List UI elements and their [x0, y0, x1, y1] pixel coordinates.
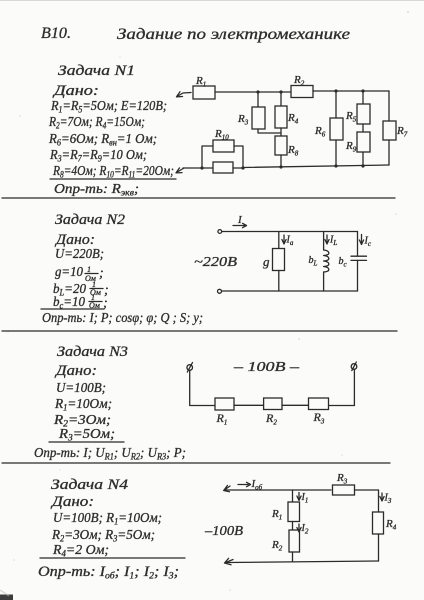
- svg-text:bc​=10: bc​=10: [53, 295, 85, 311]
- svg-text:U=100В;: U=100В;: [56, 381, 106, 396]
- svg-text:R6​=6Ом; Rвн​=1 Ом;: R6​=6Ом; Rвн​=1 Ом;: [48, 132, 157, 148]
- svg-text:Дано:: Дано:: [54, 363, 97, 379]
- svg-text:R2​=3Ом; R3​=5Ом;: R2​=3Ом; R3​=5Ом;: [51, 528, 155, 544]
- svg-text:~220В: ~220В: [194, 255, 238, 270]
- svg-text:Дано:: Дано:: [52, 83, 99, 99]
- svg-text:R3​=5Ом;: R3​=5Ом;: [58, 427, 115, 443]
- svg-text:Задача N4: Задача N4: [51, 477, 129, 493]
- svg-text:R2​=7Ом; R4​=15Ом;: R2​=7Ом; R4​=15Ом;: [48, 115, 145, 131]
- svg-text:R1​=R5​=5Ом; Е=120В;: R1​=R5​=5Ом; Е=120В;: [50, 99, 167, 115]
- svg-text:R8​=4Ом; R10​=R11​=20Ом;: R8​=4Ом; R10​=R11​=20Ом;: [52, 164, 174, 180]
- svg-text:Задача N3: Задача N3: [57, 344, 128, 360]
- svg-text:Дано:: Дано:: [50, 494, 94, 510]
- svg-text:U=100В; R1​=10Ом;: U=100В; R1​=10Ом;: [53, 511, 162, 527]
- svg-text:g: g: [263, 254, 270, 269]
- svg-text:1: 1: [87, 265, 91, 274]
- svg-text:R1​=10Ом;: R1​=10Ом;: [54, 397, 112, 413]
- svg-text:Задание по электромеханике: Задание по электромеханике: [117, 26, 350, 43]
- svg-text:– 100В –: – 100В –: [233, 360, 301, 375]
- svg-text:Задача N1: Задача N1: [58, 63, 135, 79]
- svg-text:U=220В;: U=220В;: [55, 247, 104, 262]
- svg-text:Опр-ть: I; Р; cosφ; φ; Q ; S;: Опр-ть: I; Р; cosφ; φ; Q ; S; y;: [42, 311, 203, 326]
- svg-text:–100В: –100В: [204, 524, 243, 539]
- svg-text:В10.: В10.: [41, 25, 71, 42]
- svg-text:g=10: g=10: [55, 265, 83, 280]
- svg-text:R4​=2 Ом;: R4​=2 Ом;: [52, 543, 109, 559]
- svg-text:Дано:: Дано:: [54, 232, 95, 248]
- svg-text:;: ;: [99, 266, 104, 281]
- svg-text:Задача N2: Задача N2: [55, 212, 126, 228]
